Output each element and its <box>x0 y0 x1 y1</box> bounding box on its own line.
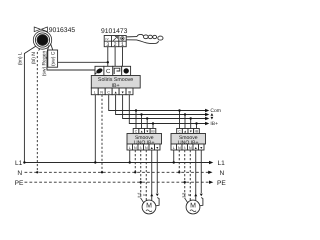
svg-text:⏚: ⏚ <box>183 146 187 150</box>
svg-text:Com: Com <box>210 108 221 114</box>
svg-text:N: N <box>100 90 103 94</box>
svg-text:(sw) C: (sw) C <box>51 51 57 66</box>
svg-text:▼: ▼ <box>155 146 159 150</box>
svg-text:IB+: IB+ <box>112 83 120 89</box>
svg-text:2: 2 <box>114 42 117 48</box>
svg-text:▼: ▼ <box>121 90 125 94</box>
svg-text:+V: +V <box>105 37 109 41</box>
svg-text:N: N <box>189 146 192 150</box>
svg-text:⏚: ⏚ <box>139 146 143 150</box>
svg-text:IB: IB <box>128 90 132 94</box>
svg-text:N: N <box>17 170 22 177</box>
svg-text:L: L <box>129 146 131 150</box>
svg-text:N: N <box>220 170 225 177</box>
svg-text:▲: ▲ <box>140 130 143 134</box>
svg-text:bn: bn <box>188 193 192 197</box>
svg-text:PE: PE <box>15 180 24 187</box>
svg-text:L1: L1 <box>15 160 23 167</box>
svg-text:▲: ▲ <box>114 90 118 94</box>
svg-text:3: 3 <box>106 42 109 48</box>
svg-text:9101473: 9101473 <box>101 28 128 35</box>
svg-text:PE: PE <box>217 180 226 187</box>
svg-text:▼: ▼ <box>199 146 203 150</box>
svg-text:▼: ▼ <box>189 130 192 134</box>
svg-text:L: L <box>94 90 96 94</box>
svg-text:(bl) N: (bl) N <box>31 52 37 65</box>
svg-text:IB+: IB+ <box>210 121 218 127</box>
svg-text:N: N <box>145 146 148 150</box>
svg-text:UNO IB+: UNO IB+ <box>134 140 155 146</box>
svg-text:1: 1 <box>121 42 124 48</box>
svg-text:sw: sw <box>138 194 143 198</box>
svg-text:L: L <box>173 146 175 150</box>
svg-text:9016345: 9016345 <box>49 27 76 34</box>
svg-text:sw: sw <box>182 194 187 198</box>
svg-text:▼: ▼ <box>146 130 149 134</box>
svg-text:UNO IB+: UNO IB+ <box>178 140 199 146</box>
svg-text:▲: ▲ <box>194 146 198 150</box>
svg-text:M: M <box>190 203 196 210</box>
svg-text:(sw) Regen: (sw) Regen <box>42 51 48 77</box>
svg-text:L1: L1 <box>218 160 226 167</box>
svg-text:▲: ▲ <box>184 130 187 134</box>
svg-text:C: C <box>106 68 111 75</box>
svg-text:bn: bn <box>143 193 147 197</box>
svg-text:N: N <box>134 146 137 150</box>
svg-text:(bn) L: (bn) L <box>18 52 24 65</box>
svg-text:C: C <box>107 90 110 94</box>
svg-text:▲: ▲ <box>150 146 154 150</box>
svg-text:N: N <box>178 146 181 150</box>
svg-text:M: M <box>146 203 152 210</box>
